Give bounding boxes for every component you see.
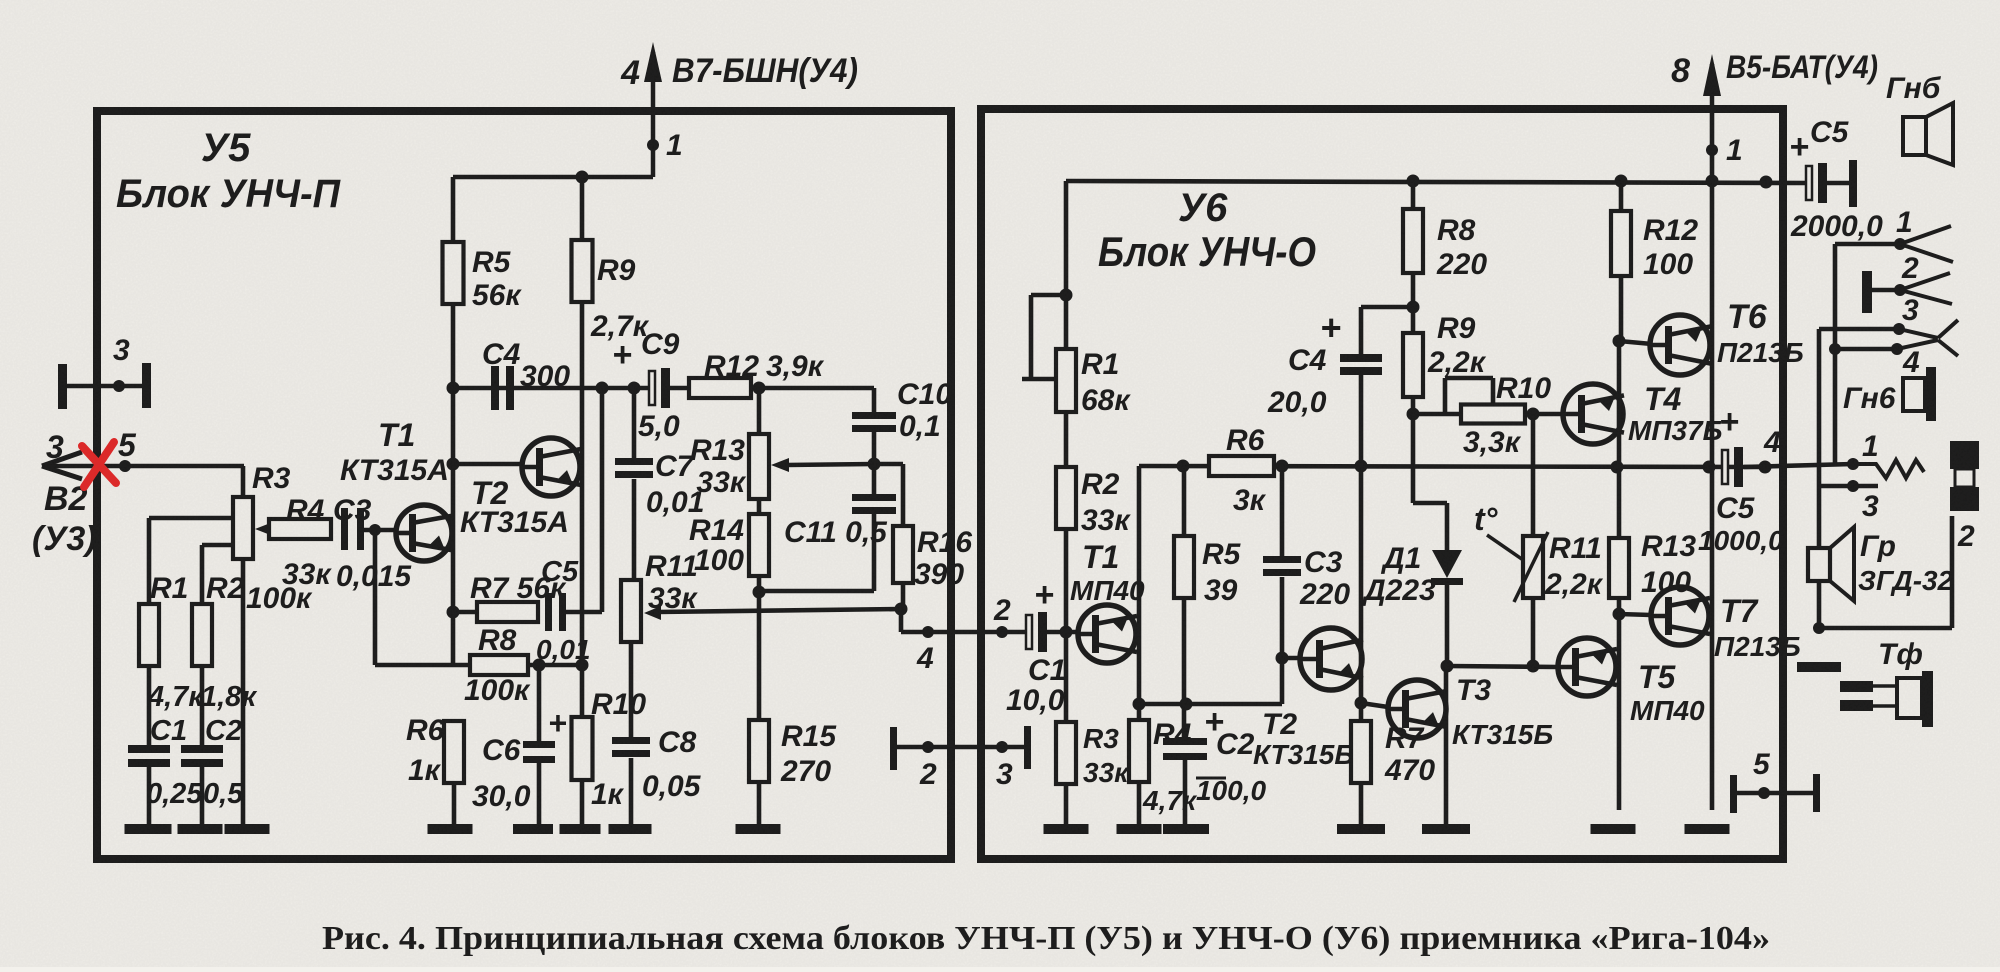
ground R10 — [560, 824, 601, 834]
node R10 right — [1527, 408, 1540, 421]
resistor R9 — [572, 240, 593, 302]
input connector 3 top-left — [58, 364, 67, 409]
transistor T2 KT315A (U5) — [522, 438, 580, 496]
node C10 bottom — [868, 458, 881, 471]
resistor R8 100k — [470, 655, 528, 675]
wiper arrow into R13 — [786, 464, 874, 465]
wire T4/T5/R13 vertical — [1617, 341, 1622, 810]
supply arrow В5-БАТ(У4) pin 8 — [1710, 64, 1715, 110]
capacitor C1 (U5) — [128, 745, 170, 753]
wire diode row to T5 — [1447, 666, 1558, 667]
transistor T7 P213B — [1619, 614, 1651, 615]
wire C9 to R12 — [670, 386, 689, 391]
transistor T1 MP40 — [1078, 605, 1136, 663]
potentiometer R3 — [241, 466, 246, 497]
node 5 — [119, 460, 131, 472]
resistor R1 68k — [1056, 349, 1076, 412]
ground R4 (U6) — [1117, 824, 1162, 834]
capacitor C2 (U5) — [181, 745, 223, 753]
wire node 4 — [899, 609, 904, 632]
resistor R3 33k (U6) — [1056, 722, 1076, 784]
node speaker bottom — [1813, 622, 1825, 634]
wire to plug 2 — [1819, 626, 1952, 631]
plug jack zigzag pin1/pin3 — [1847, 458, 1859, 470]
capacitor C6 electrolytic — [537, 665, 542, 741]
node C6 top — [533, 659, 546, 672]
node T1 base — [369, 524, 381, 536]
resistor R16 — [893, 526, 913, 583]
resistor R6 1k (U5) — [444, 721, 464, 783]
wire top rail U5 — [453, 175, 653, 180]
wire top rail U6 — [1066, 181, 1809, 183]
node 1 (U5) — [647, 139, 659, 151]
resistor R1 — [139, 604, 159, 666]
ground C8 — [609, 824, 652, 834]
ground R6 — [428, 824, 473, 834]
capacitor C3 (U5) — [341, 508, 348, 550]
transistor T2 KT315B (U6) — [1300, 628, 1362, 690]
node R9 top — [576, 171, 589, 184]
resistor R2 33k (U6) — [1056, 467, 1076, 529]
ground C2 (U6) — [1163, 824, 1209, 834]
potentiometer R11 33k (U5) — [621, 580, 641, 642]
capacitor C4 — [491, 366, 499, 410]
ground R3 (U6) — [1044, 824, 1089, 834]
supply arrow В7-БШН(У4) pin 4 — [651, 52, 656, 177]
wire right column A — [1833, 244, 1838, 464]
wire C5 up to C4 row — [600, 388, 605, 612]
transistor T5 MP40 — [1558, 638, 1616, 696]
ground C1 — [125, 824, 172, 834]
ground speaker — [1797, 662, 1841, 672]
resistor R14 — [757, 499, 762, 514]
link pin2-pin3 between blocks — [890, 727, 897, 770]
node R12 right — [753, 382, 766, 395]
input arrow B2 pin 3/5 — [44, 464, 244, 469]
node C9 left — [596, 382, 609, 395]
ground T5 — [1591, 824, 1636, 834]
potentiometer R13 — [757, 388, 762, 434]
contact pin 1 with fork — [1835, 242, 1900, 247]
node C4 left — [447, 382, 460, 395]
ground R3 — [225, 824, 270, 834]
wire T3 vertical — [1444, 666, 1449, 826]
resistor R8 220 (U6) — [1411, 181, 1416, 209]
node R7 left — [447, 606, 460, 619]
node T2 base junction — [447, 458, 460, 471]
feedback wire to R11 — [657, 609, 901, 612]
node T4 collector — [1613, 335, 1626, 348]
wire R16 branch — [874, 462, 903, 467]
wire R2 tap — [202, 543, 233, 548]
wire C4 row — [453, 386, 651, 391]
plug symbol black — [1950, 441, 1979, 469]
node R1 tap — [1060, 289, 1073, 302]
resistor R12 3.9k — [689, 378, 751, 398]
wire R1 tap — [149, 516, 233, 521]
node T1 base (U6) — [1060, 626, 1073, 639]
capacitor C3 220 — [1280, 466, 1285, 556]
node R8 bottom — [1407, 301, 1420, 314]
wire output row to plug — [1817, 329, 1822, 628]
transistor T1 KT315A — [396, 505, 452, 561]
resistor R12 100 (U6) — [1619, 181, 1624, 211]
R1 tap bracket — [1031, 293, 1066, 298]
ground T3 — [1422, 824, 1470, 834]
node D1 bottom — [1441, 660, 1454, 673]
resistor R5 — [443, 242, 464, 304]
mid rail U6 — [1139, 466, 1765, 467]
emitter row wire — [1139, 702, 1282, 707]
speaker Gr ZGD-32 — [1808, 548, 1830, 581]
resistor R15 — [749, 720, 769, 782]
resistor R13 100 (U6) — [1609, 538, 1629, 598]
resistor R9 2.2k (U6) — [1403, 333, 1423, 397]
resistor R10 3.3k with bracket — [1413, 412, 1461, 417]
ground R15 — [736, 824, 781, 834]
capacitor C11 branch — [872, 464, 877, 494]
ground T7 — [1685, 824, 1730, 834]
transistor T6 P213B — [1619, 341, 1652, 344]
resistor R7 470 — [1351, 721, 1371, 783]
node T1 emitter — [1133, 698, 1146, 711]
node T2 emitter (U6) — [1355, 697, 1368, 710]
node 1 (U6) — [1706, 144, 1718, 156]
vertical supply line T6/T7 tangent — [1710, 110, 1715, 810]
node pin 2 (C1 input) — [996, 626, 1008, 638]
block box U5 — [97, 111, 951, 859]
wire T1 collector/emitter vertical — [451, 388, 456, 665]
resistor R10 1k — [572, 717, 593, 780]
wire pin3 lower — [1835, 347, 1897, 352]
capacitor C5 (U5) — [545, 593, 552, 631]
resistor R4 4.7k (U6) — [1129, 720, 1149, 782]
wire T1 vertical (U6) — [1137, 466, 1142, 720]
capacitor C10 — [852, 412, 896, 419]
wire R11 branch down — [1531, 414, 1536, 536]
diode D1 D223 — [1411, 414, 1416, 503]
paper texture — [0, 0, 1, 1]
resistor R6 3k — [1209, 456, 1274, 476]
capacitor C7 — [632, 388, 637, 458]
ground C2 — [178, 824, 223, 834]
red X mark — [82, 446, 116, 483]
node pin 4 — [922, 626, 934, 638]
transistor T4 MP37B — [1563, 384, 1623, 444]
ground R7 (U6) — [1337, 824, 1385, 834]
capacitor C8 — [612, 737, 650, 744]
wire C4/T2/R7 vertical — [1359, 375, 1364, 721]
node R14 bottom — [753, 586, 766, 599]
node T5 collector — [1613, 608, 1626, 621]
wire R9/T2/R10 vertical — [580, 177, 585, 717]
resistor R7 56k — [477, 602, 538, 622]
link pin 5 bottom — [1730, 775, 1737, 813]
resistor R2 (U5) — [192, 604, 212, 666]
left column wire U6 — [1064, 181, 1069, 349]
node R16 bottom — [895, 603, 908, 616]
transistor T3 KT315B — [1361, 703, 1388, 707]
block box U6 — [981, 109, 1783, 859]
contact pin 2 with bar — [1862, 271, 1872, 313]
resistor R4 with wiper arrow — [255, 522, 273, 536]
wire T2 base — [453, 462, 522, 467]
node R9 bottom — [1407, 408, 1420, 421]
wire R8 bias branch — [373, 530, 378, 665]
wire R5 branch — [451, 177, 456, 242]
ground C6 — [513, 824, 553, 834]
wire to C10 — [872, 388, 877, 412]
node R8 right — [576, 659, 589, 672]
resistor R5 39 — [1182, 466, 1187, 536]
